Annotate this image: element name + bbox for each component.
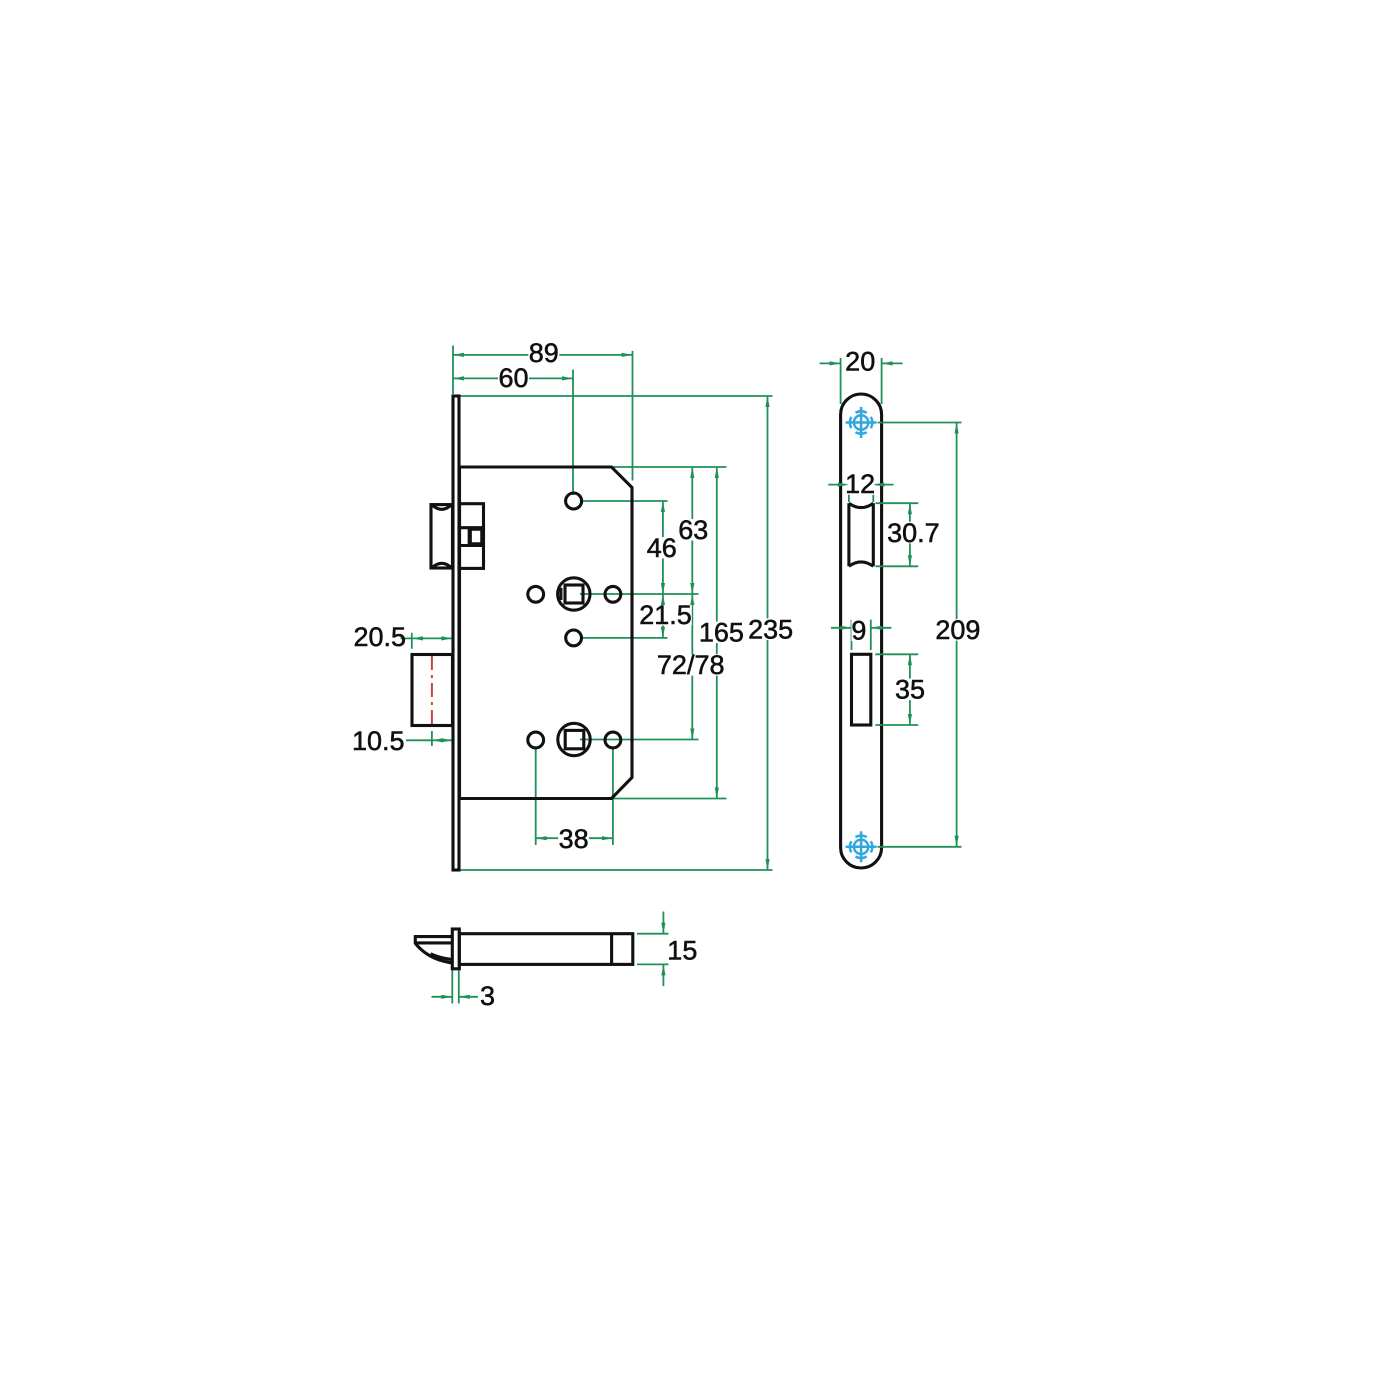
svg-text:165: 165 [699, 618, 744, 648]
extension line body top (63/165 dims) [612, 466, 727, 468]
extension line left (89/60 dims) [452, 346, 454, 395]
svg-text:9: 9 [851, 616, 866, 646]
dim line 46 [662, 501, 664, 594]
label 38 [558, 828, 589, 850]
latch bolt nose outline [415, 937, 452, 963]
upper latch window bottom arc [849, 562, 873, 566]
svg-text:20.5: 20.5 [353, 622, 406, 652]
upper spindle square hole [565, 585, 583, 603]
dim line 20 right [882, 362, 903, 364]
lower spindle follower circle [558, 723, 590, 755]
dim line 15 upper [662, 912, 664, 934]
label 72/78 [657, 654, 725, 676]
svg-text:60: 60 [498, 363, 528, 393]
middle hole [566, 630, 582, 646]
dim line 20 left [820, 362, 841, 364]
deadbolt front view [412, 655, 453, 726]
extension tick deadbolt edge (20.5 dim) [411, 633, 413, 649]
arrowheads 21.5 [661, 594, 665, 605]
latch housing upper divider [460, 526, 484, 529]
extension tick deadbolt axis (10.5 dim) [431, 731, 433, 746]
label 9 [851, 620, 866, 642]
label 209 [935, 619, 981, 641]
extension line mid hole center (21.5 dim) [582, 637, 668, 639]
arrowheads 15 [661, 923, 665, 934]
latch bolt side view body [459, 934, 633, 965]
upper right hole [605, 586, 621, 602]
upper latch window top arc [849, 503, 873, 507]
upper latch window right edge [872, 503, 875, 566]
dim line 209 [956, 423, 958, 847]
dim line 165 [716, 467, 718, 799]
arrowheads 60 [453, 376, 464, 380]
dim line 20.5 [401, 637, 453, 639]
arrowheads 63 [690, 467, 694, 478]
upper spindle follower circle [558, 578, 590, 610]
top screw hole target (blue) [846, 407, 877, 438]
lower right hole [605, 732, 621, 748]
svg-text:35: 35 [895, 675, 925, 705]
extension line bolt window left (9 dim) [851, 620, 853, 650]
bottom screw hole target (blue) [846, 831, 877, 862]
dim line 9 left [831, 627, 852, 629]
svg-text:20: 20 [845, 346, 875, 376]
upper left hole [528, 586, 544, 602]
arrowheads 46 [661, 501, 665, 512]
label 20 [845, 350, 876, 372]
dim line 3 left [432, 996, 453, 998]
svg-text:10.5: 10.5 [352, 726, 405, 756]
extension line plate back (3 dim) [458, 971, 460, 1004]
latch bolt nose inner bevel line [431, 954, 453, 960]
latch bolt head top bevel arc [433, 506, 451, 510]
extension line lower left hole (38 dim) [535, 749, 537, 846]
top fixing hole [566, 493, 582, 509]
extension line latch top (15 dim) [637, 933, 669, 935]
arrowheads 165 [715, 467, 719, 478]
extension line spindle center (46/63/21.5/72 dims) [580, 593, 699, 595]
svg-text:30.7: 30.7 [887, 518, 940, 548]
extension line latch window right (12 dim) [872, 480, 874, 503]
latch housing box [460, 504, 484, 569]
svg-text:3: 3 [480, 981, 495, 1011]
svg-text:209: 209 [935, 615, 980, 645]
faceplate front view plate [453, 396, 459, 870]
extension line bottom screw center (209 dim) [878, 846, 962, 848]
arrowheads 3 [441, 995, 452, 999]
faceplate side view (stadium) [841, 394, 882, 868]
extension line lower right hole (38 dim) [612, 749, 614, 846]
latch bolt head front view [431, 505, 453, 568]
label 35 [895, 679, 926, 701]
extension line bolt window top (35 dim) [875, 653, 918, 655]
svg-text:21.5: 21.5 [639, 600, 692, 630]
extension line plate front (3 dim) [451, 971, 453, 1004]
svg-text:15: 15 [667, 936, 697, 966]
extension line body right edge (89 dim) [632, 351, 634, 481]
dim line 30.7 [909, 503, 911, 566]
arrowheads 38 [536, 836, 547, 840]
upper latch window left edge [847, 503, 850, 566]
arrowheads 9 [841, 626, 852, 630]
latch bolt side view faceplate section [452, 929, 459, 969]
latch housing inner block [470, 529, 482, 544]
latch housing vertical divider [468, 528, 471, 546]
arrowheads 235 [765, 396, 769, 407]
dim line 72/78 [691, 594, 693, 740]
dim line 35 [909, 654, 911, 725]
lower deadbolt window [852, 654, 871, 725]
label 46 [646, 537, 677, 559]
dim line 21.5 [662, 594, 664, 638]
dim line 38 [536, 837, 613, 839]
extension line faceplate top (235 dim) [457, 395, 773, 397]
label 165 [699, 622, 745, 644]
lower spindle square hole [565, 730, 584, 748]
svg-text:235: 235 [748, 615, 793, 645]
extension line lower spindle center (72/78 dim) [580, 739, 699, 741]
arrowheads 35 [908, 654, 912, 665]
lower left hole [528, 732, 544, 748]
extension line latch window top (30.7 dim) [876, 502, 919, 504]
extension line faceplate width left (20 dim) [840, 358, 842, 404]
dim line 89 [453, 354, 633, 356]
svg-text:12: 12 [845, 469, 875, 499]
extension line top screw center (209 dim) [878, 422, 962, 424]
extension line top hole center (46 dim) [583, 500, 668, 502]
extension line body bottom (165 dim) [613, 798, 727, 800]
dim line 12 right [873, 484, 893, 486]
label 235 [748, 619, 794, 641]
upper spindle chord flat [559, 588, 562, 600]
arrowheads 20.5 [412, 636, 423, 640]
dim line 9 right [871, 627, 892, 629]
dim line 12 left [828, 484, 849, 486]
lock body outline [460, 467, 633, 799]
label 60 [498, 367, 529, 389]
dim line 10.5 [406, 739, 452, 741]
extension line latch window left (12 dim) [848, 480, 850, 503]
extension line latch bottom (15 dim) [637, 963, 669, 965]
latch bolt head bottom bevel arc [433, 563, 451, 567]
dim line 235 [767, 396, 769, 870]
arrowheads 10.5 [432, 738, 443, 742]
deadbolt centerline (red) [431, 656, 433, 727]
dim line 63 [691, 467, 693, 594]
svg-text:38: 38 [559, 824, 589, 854]
arrowheads 72/78 [690, 594, 694, 605]
dim line 15 lower [662, 964, 664, 986]
arrowheads 30.7 [908, 503, 912, 514]
arrowheads 12 [838, 483, 849, 487]
svg-text:89: 89 [529, 338, 559, 368]
latch bolt nose band line [416, 941, 452, 944]
label 63 [678, 519, 709, 541]
extension line latch window bottom (30.7 dim) [876, 565, 919, 567]
dim line 60 [453, 377, 573, 379]
label 89 [528, 342, 559, 364]
arrowheads 89 [453, 353, 464, 357]
extension line bolt window bottom (35 dim) [875, 724, 918, 726]
extension line bolt window right (9 dim) [870, 620, 872, 650]
latch housing lower divider [460, 544, 484, 547]
extension line faceplate bottom (235 dim) [460, 869, 773, 871]
extension line faceplate width right (20 dim) [881, 358, 883, 404]
dim line 3 right [459, 996, 478, 998]
svg-text:46: 46 [647, 533, 677, 563]
label 12 [845, 473, 876, 495]
label 30.7 [885, 522, 942, 544]
latch bolt side view end cap divider [610, 934, 613, 965]
arrowheads 209 [955, 423, 959, 434]
svg-text:63: 63 [678, 515, 708, 545]
arrowheads 20 [830, 361, 841, 365]
label 21.5 [639, 604, 692, 626]
extension line spindle axis (60 dim) [572, 370, 574, 496]
svg-text:72/78: 72/78 [657, 650, 725, 680]
